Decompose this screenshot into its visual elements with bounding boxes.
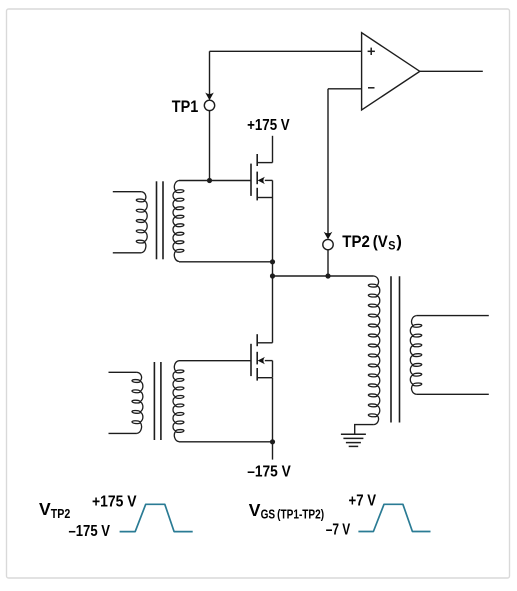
svg-text:–175 V: –175 V <box>69 523 111 540</box>
svg-text:+175 V: +175 V <box>247 117 290 134</box>
svg-text:+175 V: +175 V <box>92 493 137 510</box>
svg-text:): ) <box>396 233 402 251</box>
svg-text:S: S <box>388 238 395 252</box>
svg-text:TP2: TP2 <box>51 507 71 521</box>
svg-text:GS (TP1-TP2): GS (TP1-TP2) <box>261 507 325 521</box>
svg-text:–175 V: –175 V <box>247 463 291 480</box>
svg-text:TP2 (V: TP2 (V <box>342 233 388 251</box>
svg-text:V: V <box>39 499 51 519</box>
svg-text:V: V <box>249 500 261 520</box>
svg-text:–7 V: –7 V <box>326 521 351 538</box>
svg-text:TP1: TP1 <box>172 97 199 116</box>
svg-text:+7 V: +7 V <box>349 493 377 510</box>
